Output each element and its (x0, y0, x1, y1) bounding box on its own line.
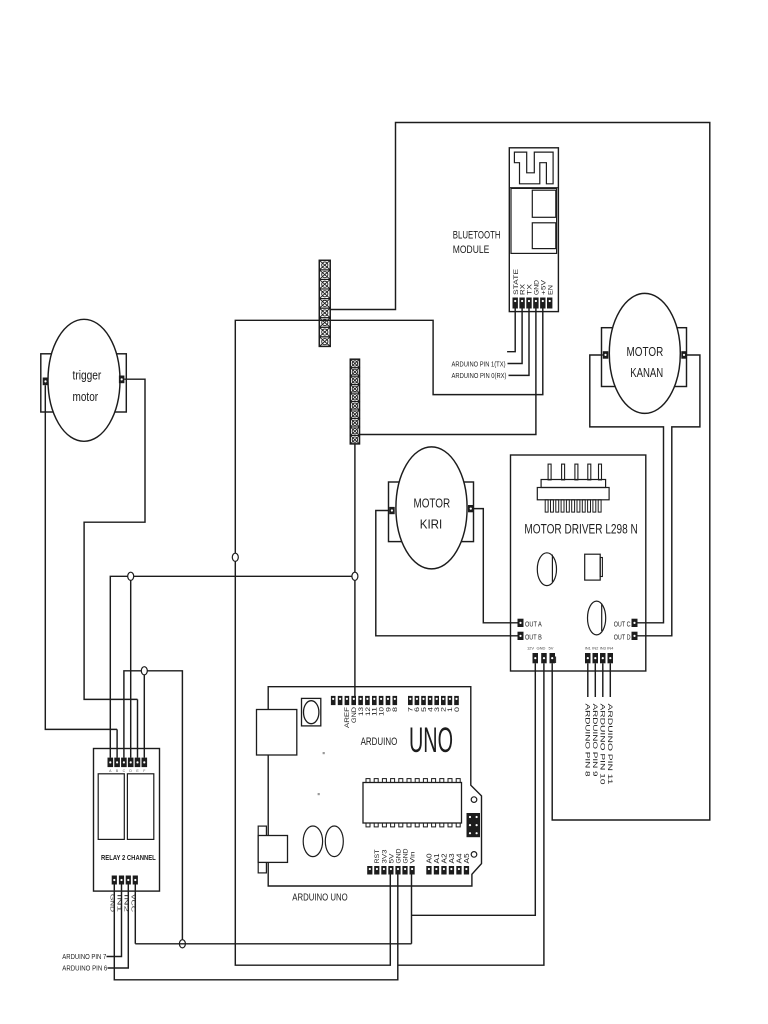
svg-text:KANAN: KANAN (630, 365, 663, 380)
arduino digital pin 7 (408, 696, 413, 705)
arduino digital pin GND (351, 696, 356, 705)
wire: motor kanan right to driver OUT D (638, 355, 700, 636)
arduino solder dot 2 (318, 793, 320, 795)
arduino digital pin 13 (358, 696, 363, 705)
node VCC net junction (179, 940, 185, 948)
arduino icsp header (467, 813, 481, 837)
arduino digital pin 12 (365, 696, 370, 705)
driver pin IN1 (585, 653, 591, 663)
arduino analog pin A2 (441, 866, 446, 875)
wire: arduino Vin branch to driver 12V (412, 663, 536, 915)
arduino power pin 3V3 (381, 866, 386, 875)
driver connector tooth 6 (572, 500, 575, 512)
svg-text:5V: 5V (388, 853, 395, 864)
wire: relay pin F up to junction (143, 671, 145, 758)
svg-text:ARDUINO PIN 6: ARDUINO PIN 6 (62, 965, 107, 972)
driver connector tooth 8 (582, 500, 585, 512)
arduino power pin GND (402, 866, 407, 875)
driver connector pin 2 (562, 464, 565, 480)
svg-text:ARDUINO PIN 9: ARDUINO PIN 9 (591, 704, 598, 777)
svg-text:IN1: IN1 (116, 894, 122, 912)
bluetooth pin +5V (540, 298, 545, 309)
arduino uno board outline (268, 687, 481, 886)
svg-text:MOTOR: MOTOR (627, 344, 664, 359)
wire: motor kiri right to driver OUT A (474, 509, 518, 623)
bluetooth pin RX (519, 298, 524, 309)
svg-text:OUT B: OUT B (525, 634, 542, 641)
driver connector tooth 3 (556, 500, 559, 512)
arduino analog pin A4 (456, 866, 461, 875)
svg-text:A2: A2 (441, 853, 448, 863)
wire: relay VCC to arduino Vin pin (135, 875, 411, 944)
arduino analog pin A5 (464, 866, 469, 875)
trigger motor frame (41, 354, 127, 412)
arduino capacitor 2 (325, 826, 343, 857)
relay 2 channel board (94, 749, 160, 892)
svg-text:MODULE: MODULE (453, 244, 490, 256)
arduino digital pin 4 (428, 696, 433, 705)
bluetooth pin STATE (513, 298, 518, 309)
driver pin GND (541, 653, 547, 663)
arduino power pin RST (374, 866, 379, 875)
svg-text:0: 0 (454, 706, 461, 712)
arduino power pin GND (395, 866, 400, 875)
wire: trigger motor left terminal to relay pin B (45, 385, 117, 729)
arduino digital pin 8 (393, 696, 398, 705)
wire: strip J2 bottom to arduino GND top pin (354, 444, 356, 697)
driver connector tooth 9 (588, 500, 591, 512)
driver capacitor C1 (537, 553, 556, 586)
svg-text:ARDUINO PIN 10: ARDUINO PIN 10 (598, 704, 605, 785)
bluetooth component square 1 (532, 190, 556, 217)
arduino mounting hole top (471, 797, 477, 803)
driver connector pin 5 (599, 464, 602, 480)
svg-text:GND: GND (395, 848, 402, 863)
driver pin OUT C (632, 619, 638, 627)
relay top pin A (108, 758, 114, 768)
motor kanan frame (602, 328, 687, 387)
arduino power pin 5V (388, 866, 393, 875)
driver pin IN4 (608, 653, 614, 663)
driver connector pin 3 (575, 464, 578, 480)
svg-text:MOTOR DRIVER L298 N: MOTOR DRIVER L298 N (524, 522, 637, 537)
svg-text:EN: EN (547, 285, 554, 295)
svg-text:RST: RST (374, 849, 381, 863)
svg-text:5V: 5V (549, 646, 554, 651)
driver pin IN3 (600, 653, 606, 663)
svg-text:12V: 12V (527, 646, 534, 651)
bluetooth module antenna divider (509, 187, 558, 189)
arduino digital pin 6 (415, 696, 420, 705)
relay bottom pin GND (112, 876, 117, 885)
arduino analog pin A1 (434, 866, 439, 875)
wire: driver ARDUINO PIN 8 stub (587, 663, 589, 697)
wire: bluetooth STATE stub (507, 309, 515, 352)
relay bottom pin IN2 (126, 876, 131, 885)
relay top pin C (121, 758, 127, 768)
svg-text:OUT A: OUT A (525, 621, 542, 628)
arduino digital pin 2 (441, 696, 446, 705)
relay top pin F (142, 758, 148, 768)
svg-text:A0: A0 (426, 853, 433, 863)
svg-text:GND: GND (108, 894, 114, 912)
svg-text:F: F (143, 769, 145, 773)
trigger motor body (48, 319, 120, 441)
wire: relay pin E up (137, 699, 139, 757)
driver connector tooth 5 (566, 500, 569, 512)
wire: relay pin C to VCC net (124, 671, 182, 944)
svg-text:VCC: VCC (129, 894, 135, 912)
svg-text:A4: A4 (456, 853, 463, 863)
driver pin IN2 (593, 653, 599, 663)
arduino digital pin nc1 (338, 696, 343, 705)
driver connector tooth 11 (598, 500, 601, 512)
arduino digital pin 0 (454, 696, 459, 705)
driver connector pin 1 (548, 464, 551, 480)
motor kanan right terminal (681, 351, 687, 359)
svg-text:OUT D: OUT D (614, 634, 631, 641)
wire: motor driver 5V pin to pin-header strip J1 (big outer loop) (330, 123, 710, 821)
driver pin OUT D (632, 632, 638, 640)
svg-text:ARDUINO PIN 1(TX): ARDUINO PIN 1(TX) (452, 361, 506, 368)
svg-text:OUT C: OUT C (614, 621, 631, 628)
arduino digital pin 10 (379, 696, 384, 705)
svg-text:Vin: Vin (410, 851, 417, 863)
svg-text:KIRI: KIRI (420, 516, 443, 531)
driver pin OUT A (518, 619, 524, 627)
svg-text:RELAY 2 CHANNEL: RELAY 2 CHANNEL (101, 855, 156, 862)
wire: trigger motor right terminal to relay pin E (84, 379, 145, 699)
bluetooth component square 2 (532, 223, 556, 249)
bluetooth pin EN (547, 298, 552, 309)
svg-text:A3: A3 (449, 853, 456, 863)
bluetooth pin GND (533, 298, 538, 309)
svg-text:BLUETOOTH: BLUETOOTH (453, 229, 501, 241)
arduino power pin Vin (410, 866, 415, 875)
driver pin 5V side mark (555, 657, 557, 664)
relay 1 (98, 774, 124, 840)
bluetooth pin TX (526, 298, 531, 309)
bluetooth antenna meander trace (514, 152, 553, 184)
relay bottom pin VCC (133, 876, 138, 885)
svg-text:ARDUINO PIN 8: ARDUINO PIN 8 (583, 704, 590, 777)
node relay pin F junction (141, 667, 147, 675)
svg-text:trigger: trigger (73, 368, 102, 383)
svg-text:GND: GND (537, 646, 546, 651)
wire: bluetooth GND to header strip J2 (360, 309, 536, 435)
svg-text:ARDUINO PIN 7: ARDUINO PIN 7 (62, 954, 106, 961)
driver connector upper bar (541, 480, 606, 488)
wire: driver ARDUINO PIN 11 stub (609, 663, 611, 697)
trigger motor left terminal (43, 378, 49, 386)
arduino usb connector (257, 710, 297, 756)
svg-text:MOTOR: MOTOR (413, 495, 450, 510)
svg-text:A1: A1 (434, 853, 441, 863)
relay top pin D (128, 758, 134, 768)
arduino power pin nc (367, 866, 372, 875)
pin header strip J2 (350, 359, 359, 444)
svg-text:IN2: IN2 (122, 894, 128, 912)
arduino IC atmega328 (363, 783, 462, 824)
driver connector lower bar (537, 488, 609, 500)
relay 2 (127, 774, 153, 840)
node arduino GND net junction (352, 572, 358, 580)
node on +5V route (232, 553, 238, 561)
wire: driver ARDUINO PIN 10 stub (602, 663, 604, 697)
arduino digital pin 3 (434, 696, 439, 705)
arduino digital pin nc0 (331, 696, 336, 705)
motor driver L298N board (511, 455, 646, 671)
svg-text:ARDUINO PIN 0(RX): ARDUINO PIN 0(RX) (452, 373, 507, 380)
arduino mounting hole bottom (471, 852, 477, 858)
node relay pin D junction (128, 572, 134, 580)
wire: bluetooth +5V to arduino 5V pin (long route) (235, 309, 543, 966)
driver connector tooth 1 (545, 500, 548, 512)
arduino digital pin 11 (372, 696, 377, 705)
bluetooth module body (509, 148, 558, 312)
svg-text:motor: motor (73, 389, 99, 404)
driver capacitor C2 (588, 601, 606, 635)
relay top pin B (114, 758, 120, 768)
wire: bluetooth TX to label ARDUINO PIN 0(RX) (509, 309, 530, 376)
svg-text:IN2: IN2 (592, 646, 599, 651)
driver pin OUT B (518, 632, 524, 640)
driver connector pin 4 (588, 464, 591, 480)
svg-text:ARDUINO UNO: ARDUINO UNO (292, 892, 347, 904)
wire: relay GND to arduino GND pin (114, 875, 398, 980)
arduino digital pin 5 (421, 696, 426, 705)
driver pin 12V (533, 653, 539, 663)
motor kiri frame (389, 482, 474, 542)
svg-text:GND: GND (402, 848, 409, 863)
svg-text:A5: A5 (464, 853, 471, 863)
svg-text:UNO: UNO (409, 721, 453, 760)
wire: relay IN2 stub (108, 885, 129, 969)
svg-text:IN3: IN3 (600, 646, 607, 651)
wire: relay pin B up (116, 729, 118, 757)
driver connector tooth 2 (551, 500, 554, 512)
wire: relay IN1 stub (107, 885, 122, 957)
motor kiri left terminal (389, 507, 395, 514)
bluetooth shield inner box (511, 188, 557, 253)
svg-text:ARDUINO: ARDUINO (361, 736, 398, 748)
driver pin 5V (550, 653, 556, 663)
motor kanan body (609, 293, 680, 413)
arduino digital pin 1 (448, 696, 453, 705)
driver connector tooth 7 (577, 500, 580, 512)
motor kanan left terminal (603, 351, 609, 359)
wire: motor kiri left to driver OUT B (376, 511, 518, 636)
trigger motor right terminal (119, 376, 125, 384)
svg-text:IN4: IN4 (607, 646, 614, 651)
relay top pin E (135, 758, 141, 768)
arduino solder dot 1 (323, 752, 325, 754)
svg-text:8: 8 (392, 706, 399, 712)
wire: driver ARDUINO PIN 9 stub (594, 663, 596, 697)
svg-text:ARDUINO PIN 11: ARDUINO PIN 11 (606, 704, 613, 785)
arduino digital pin AREF (345, 696, 350, 705)
wire: relay pin D up to junction (130, 576, 132, 757)
arduino power jack (258, 826, 266, 873)
arduino digital pin 9 (386, 696, 391, 705)
motor kiri right terminal (468, 505, 474, 512)
motor kiri body (396, 447, 467, 569)
arduino analog pin A0 (426, 866, 431, 875)
arduino analog pin A3 (449, 866, 454, 875)
wire: bluetooth RX to label ARDUINO PIN 1(TX) (508, 309, 523, 364)
pin header strip J1 (319, 260, 330, 346)
svg-text:IN1: IN1 (585, 646, 592, 651)
svg-text:3V3: 3V3 (381, 849, 388, 863)
relay bottom pin IN1 (119, 876, 124, 885)
driver regulator block (585, 554, 601, 580)
arduino capacitor 1 (303, 826, 322, 857)
wire: driver GND to arduino GND (398, 663, 544, 965)
driver connector tooth 10 (593, 500, 596, 512)
wire: motor kanan left to driver OUT C (590, 355, 664, 623)
arduino reset button (302, 698, 321, 726)
wire: relay pin A to arduino GND net (110, 576, 355, 757)
driver connector tooth 4 (561, 500, 564, 512)
